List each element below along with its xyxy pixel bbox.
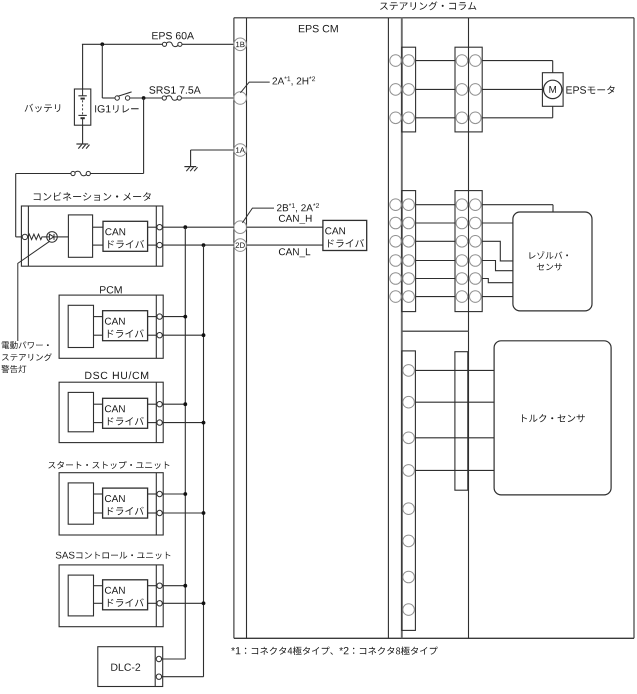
wire relay feed drop xyxy=(101,44,103,98)
pin torque row 5 xyxy=(403,503,415,515)
label EPS warning light xyxy=(2,341,49,349)
steering column right edge xyxy=(633,18,635,639)
pin pair motor row 2 xyxy=(390,84,402,96)
wire meter to CAN_L bus xyxy=(162,244,234,246)
EPS CM / steering column frame top line xyxy=(234,17,634,19)
wire motor harness row 3 xyxy=(416,117,455,119)
battery BATT xyxy=(74,89,90,125)
fuse SRS1 7.5A xyxy=(162,96,166,100)
module SAS control unit xyxy=(59,565,163,627)
label EPS motor xyxy=(566,86,614,94)
module DSC HU/CM label xyxy=(85,371,148,379)
wire 1A ground xyxy=(191,149,234,151)
wire resolver harness row 6 xyxy=(416,296,455,298)
steering column internal connector boundary line xyxy=(468,18,470,639)
module PCM label xyxy=(100,286,122,293)
wire meter CAN_H internal xyxy=(93,226,103,228)
connector block J4 (column side, resolver) xyxy=(455,191,482,312)
wire battery negative xyxy=(82,125,84,144)
wire resolver harness row 1 xyxy=(416,204,455,206)
label EPS 60A xyxy=(152,32,194,39)
steering column internal separator xyxy=(402,330,469,332)
wire motor phase W xyxy=(482,117,553,119)
torque sensor B2 xyxy=(494,341,611,495)
pin pair resolver row 5 xyxy=(390,273,402,285)
EPS CM right connector strip outer line xyxy=(387,18,389,639)
resolver sensor B1 xyxy=(513,212,592,311)
wire resolver harness row 5 xyxy=(416,278,455,280)
label SRS1 7.5A xyxy=(149,86,200,93)
DLC-2 pin CAN_H xyxy=(156,656,161,661)
fuse (meter) xyxy=(71,171,75,175)
warning lamp LED xyxy=(47,232,58,243)
pin pair resolver row 1 xyxy=(390,199,402,211)
pin torque row 4 xyxy=(403,465,415,477)
pin torque row 2 xyxy=(403,396,415,408)
connector 1B xyxy=(234,38,247,51)
pin pair resolver row 4 xyxy=(390,255,402,267)
wire motor harness row 2 xyxy=(416,88,455,90)
relay IG1 contacts xyxy=(115,96,119,100)
connector 1A xyxy=(234,144,247,157)
module PCM xyxy=(59,295,163,358)
node B+ junction xyxy=(100,42,104,46)
meter pin CAN_H xyxy=(157,225,162,230)
leader warning lamp label xyxy=(18,241,50,341)
pin pair resolver row 6 xyxy=(390,291,402,303)
EPS CM box left edge xyxy=(233,18,235,639)
wire CAN_L bus xyxy=(203,245,205,677)
wire resolver harness row 3 xyxy=(416,240,455,242)
wire meter CAN_L internal xyxy=(93,244,103,246)
meter left pin xyxy=(22,234,27,239)
connector block J2 (column side, motor) xyxy=(455,47,482,132)
label IG1 relay xyxy=(95,105,138,113)
frame bottom line xyxy=(234,637,634,639)
connector 2A/2H (power) xyxy=(234,92,247,105)
wire resolver row 6 xyxy=(482,296,513,298)
module DSC HU/CM xyxy=(59,382,163,442)
pin pair motor row 1 xyxy=(390,55,402,67)
resistor (warning lamp) xyxy=(27,236,30,238)
meter pin CAN_L xyxy=(157,242,162,247)
module start-stop unit xyxy=(59,473,163,535)
wire resolver row 1 to sensor top xyxy=(482,204,553,206)
wire DLC-2 to CAN_L bus xyxy=(162,676,204,678)
meter logic box xyxy=(68,215,92,257)
node meter CAN_H junction xyxy=(183,225,187,229)
wire meter feed xyxy=(16,173,71,175)
wire resolver row 5 xyxy=(482,279,513,283)
node meter CAN_L junction xyxy=(202,243,206,247)
wire CAN_H into EPS CM xyxy=(247,226,323,228)
pin torque row 6 xyxy=(403,535,415,547)
label DLC-2 xyxy=(111,664,140,671)
wire battery positive riser xyxy=(82,44,84,89)
label CAN_H xyxy=(279,215,312,224)
wire DLC-2 to CAN_H bus xyxy=(162,658,186,660)
wire torque signal 3 xyxy=(415,437,494,439)
pin torque row 8 xyxy=(403,604,415,616)
wire resolver harness row 2 xyxy=(416,222,455,224)
wire meter feed drop xyxy=(15,174,17,237)
EPS motor M1 xyxy=(542,73,563,107)
module start-stop unit label xyxy=(48,461,169,469)
wire relay to SRS1 fuse xyxy=(130,97,162,99)
wire resolver harness row 4 xyxy=(416,260,455,262)
wire resolver row 3 xyxy=(482,241,513,261)
meter left strip line xyxy=(27,206,29,266)
leader 2B/2A label xyxy=(242,208,274,223)
pin pair motor row 3 xyxy=(390,112,402,124)
connector 2B/2A (CAN_H) xyxy=(234,221,247,234)
wire CAN_H bus xyxy=(184,227,186,659)
wire resistor to lamp xyxy=(43,236,46,238)
pin torque row 7 xyxy=(403,571,415,583)
wire resolver row 2 xyxy=(482,222,513,224)
ground (1A) xyxy=(184,166,196,168)
connector block J3 (EPS CM to column, resolver) xyxy=(402,191,416,312)
EPS CM / steering column boundary line xyxy=(401,18,403,639)
node IG1 output junction xyxy=(142,96,146,100)
connector block J1 (EPS CM to column, motor) xyxy=(402,47,416,132)
pin torque row 1 xyxy=(403,365,415,377)
EPS CM label xyxy=(299,25,338,33)
wire torque signal 1 xyxy=(415,369,494,371)
module DLC-2 xyxy=(98,647,163,687)
leader 2A/2H label xyxy=(240,82,269,93)
wire SRS1 to EPS CM xyxy=(181,97,234,99)
combination meter box xyxy=(21,206,162,266)
wire motor harness row 1 xyxy=(416,60,455,62)
meter right strip line xyxy=(155,206,157,266)
wire resolver row 4 xyxy=(482,261,513,271)
combination meter label xyxy=(34,192,151,201)
wire B+ feed to 1B xyxy=(82,43,162,45)
fuse EPS 60A xyxy=(162,42,166,46)
wire lamp to meter logic xyxy=(57,236,68,238)
wire torque signal 4 xyxy=(415,469,494,471)
steering column outer frame label xyxy=(380,1,476,10)
connector strip J5 (EPS CM to column, torque) xyxy=(402,351,416,631)
label 2A*1 2H*2 xyxy=(273,76,316,85)
connector J6 (column side, torque) xyxy=(455,352,468,491)
label battery xyxy=(25,104,61,113)
EPS CM left connector strip inner line xyxy=(246,18,248,639)
module SAS control unit label xyxy=(56,552,171,560)
wire motor phase V xyxy=(482,88,542,90)
wire meter to CAN_H bus xyxy=(162,226,234,228)
footnote connector types xyxy=(231,647,438,656)
DLC-2 pin CAN_L xyxy=(156,674,161,679)
wire torque signal 2 xyxy=(415,401,494,403)
wire IG1 to meter drop xyxy=(143,98,145,174)
pin torque row 3 xyxy=(403,432,415,444)
relay IG1 lever xyxy=(118,92,132,97)
wire CAN_L into EPS CM xyxy=(247,244,323,246)
meter CAN driver box xyxy=(103,221,148,251)
pin pair resolver row 2 xyxy=(390,217,402,229)
wire motor phase U xyxy=(482,60,553,62)
connector 2D (CAN_L) xyxy=(234,239,247,252)
ground (battery) xyxy=(76,143,88,145)
label 2B*1 2A*2 xyxy=(277,203,319,212)
label CAN_L xyxy=(279,248,310,257)
EPS CM internal CAN driver U-CAN xyxy=(323,220,367,250)
pin pair resolver row 3 xyxy=(390,236,402,248)
